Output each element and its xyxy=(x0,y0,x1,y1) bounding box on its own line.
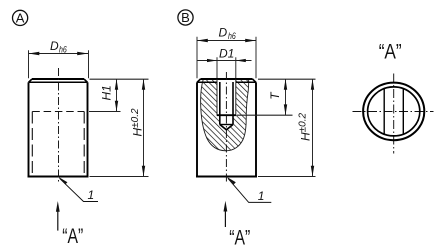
svg-text:H1: H1 xyxy=(100,85,114,100)
dimension H +-0.2 (figure B) xyxy=(258,79,316,177)
broken-out section break line (figure B) xyxy=(201,80,249,151)
svg-text:B: B xyxy=(181,10,190,25)
view label circle A xyxy=(13,10,28,25)
view label circle B xyxy=(178,10,193,25)
svg-text:h6: h6 xyxy=(59,45,67,55)
leader 1 (figure A) xyxy=(58,177,98,202)
svg-text:1: 1 xyxy=(258,189,265,203)
view arrow A (figure A) xyxy=(56,201,83,248)
cylinder A outline xyxy=(28,79,89,177)
hidden counterbore (figure A, dashed) xyxy=(32,112,84,177)
dimension D1 (figure B) xyxy=(198,47,252,79)
leader 1 (figure B) xyxy=(227,177,271,203)
svg-text:“A”: “A” xyxy=(229,226,250,250)
centerline figure A xyxy=(58,68,60,183)
centerline figure B xyxy=(225,72,227,184)
dimension D h6 (figure A) xyxy=(29,39,89,78)
threaded bore (figure B) xyxy=(217,79,236,130)
svg-text:1: 1 xyxy=(88,188,95,202)
svg-text:D1: D1 xyxy=(219,47,234,61)
view arrow A (figure B) xyxy=(224,201,251,250)
svg-text:T: T xyxy=(268,91,282,100)
dimension H1 (figure A) xyxy=(89,79,121,112)
centerlines (circle view) xyxy=(353,74,434,154)
svg-text:A: A xyxy=(16,11,25,26)
svg-text:H±0.2: H±0.2 xyxy=(298,113,313,142)
svg-text:D: D xyxy=(219,26,228,40)
svg-text:“A”: “A” xyxy=(379,40,402,64)
dimension D h6 (figure B) xyxy=(197,26,256,79)
dimension H +-0.2 (figure A) xyxy=(90,79,149,177)
slot lines (view A) xyxy=(384,89,403,134)
svg-text:h6: h6 xyxy=(228,31,236,41)
svg-text:H±0.2: H±0.2 xyxy=(130,108,145,137)
svg-text:D: D xyxy=(50,39,59,53)
outer circle (view A) xyxy=(363,83,424,141)
dimension T (figure B) xyxy=(237,79,316,115)
cylinder B outline xyxy=(196,79,257,177)
bore interior white (figure B) xyxy=(217,79,236,131)
inner circle (view A) xyxy=(368,87,420,136)
svg-text:“A”: “A” xyxy=(62,224,83,248)
broken-out section hatch (figure B) xyxy=(201,80,249,151)
